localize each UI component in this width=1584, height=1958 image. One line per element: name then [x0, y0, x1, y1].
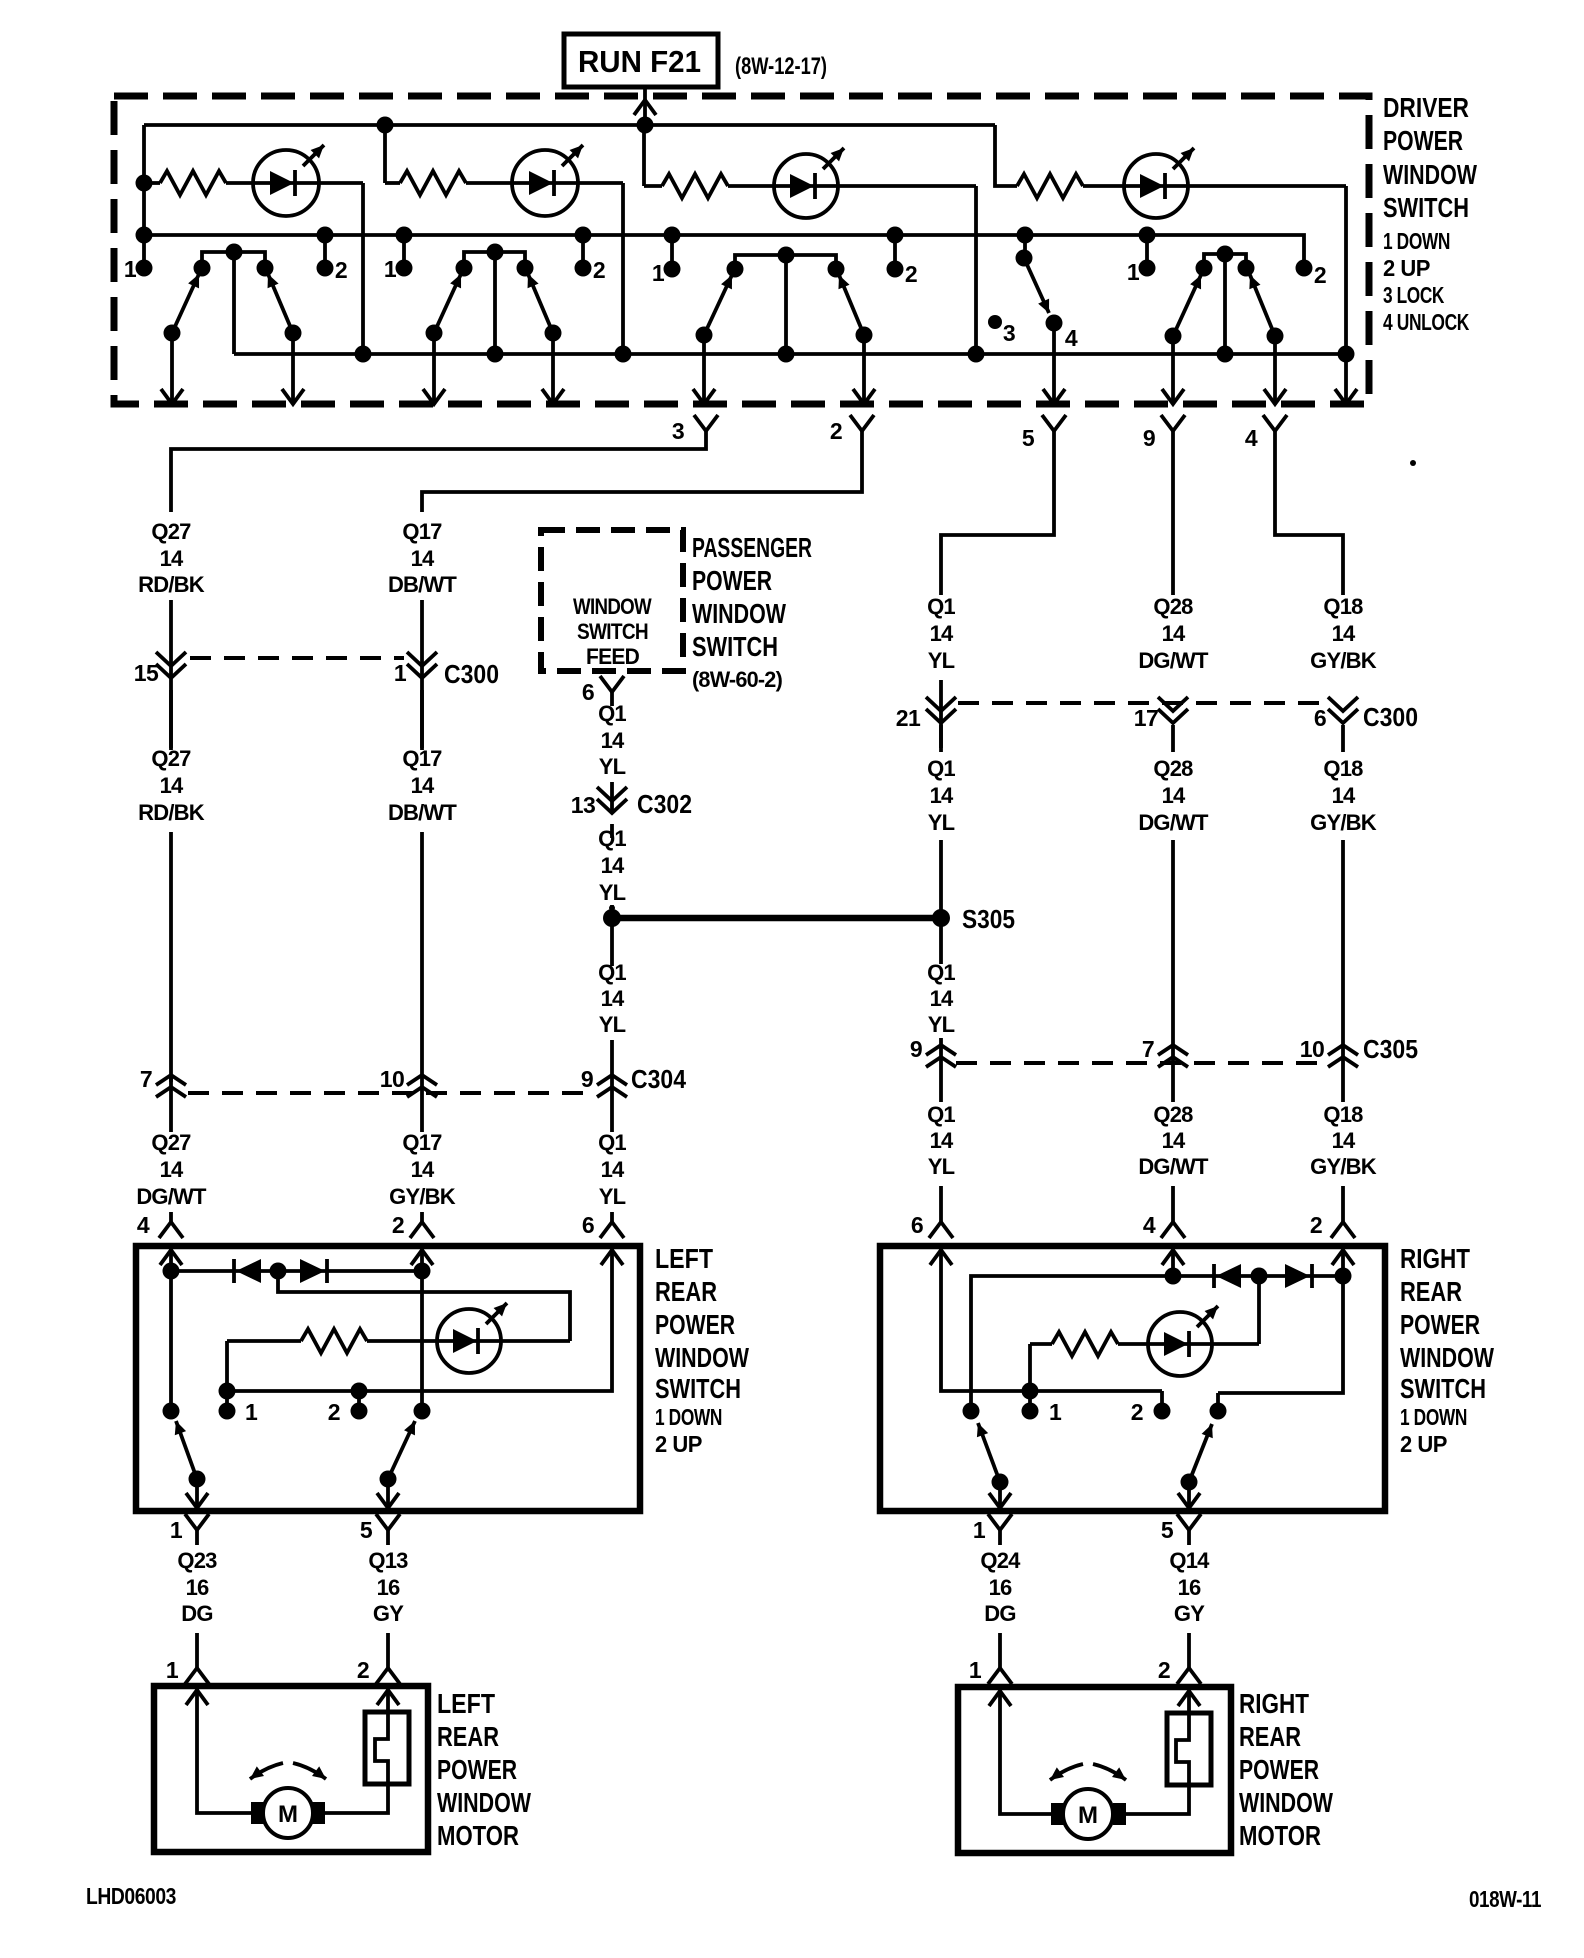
svg-text:1: 1: [969, 1657, 982, 1683]
svg-text:PASSENGER: PASSENGER: [692, 532, 812, 563]
pin number 1 (right rear): [1049, 1399, 1062, 1425]
svg-text:3: 3: [672, 418, 684, 444]
pin2 stub unit3: [893, 235, 897, 269]
svg-text:Q27: Q27: [151, 519, 191, 544]
svg-text:14: 14: [1162, 621, 1186, 646]
svg-text:POWER: POWER: [1239, 1754, 1319, 1785]
switch S2 common post: [493, 252, 497, 354]
switch S1 common dot: [226, 244, 243, 261]
circuit breaker CB (right rear motor): [1126, 1687, 1211, 1814]
svg-text:DG: DG: [984, 1601, 1015, 1626]
svg-text:YL: YL: [599, 1184, 626, 1209]
junction unit3 LED drop / lower bus: [968, 346, 985, 363]
label S305: [962, 904, 1015, 934]
wire arm outputs to bottom border (right rear): [1000, 1482, 1189, 1508]
svg-text:9: 9: [910, 1036, 922, 1062]
switch S1 bridge (driver unit1): [202, 252, 265, 268]
svg-text:2: 2: [593, 257, 605, 283]
unlock common post: [1223, 254, 1227, 354]
svg-text:(8W-12-17): (8W-12-17): [735, 53, 827, 80]
svg-text:14: 14: [411, 773, 435, 798]
label wire Q24 16 DG: [980, 1548, 1021, 1573]
pin1 stub unit2: [402, 235, 406, 268]
resistor R6 (right rear illumination): [1030, 1342, 1052, 1346]
pin number 2 (unit4): [1314, 262, 1326, 288]
svg-text:C300: C300: [1363, 702, 1418, 732]
entry arrows right rear switch: [930, 1250, 952, 1265]
svg-text:(8W-60-2): (8W-60-2): [692, 667, 782, 692]
junction between diodes: [270, 1263, 287, 1280]
label LEFT REAR POWER WINDOW MOTOR: [437, 1688, 495, 1719]
unlock common dot: [1217, 246, 1234, 263]
svg-text:1: 1: [1127, 259, 1140, 285]
svg-text:2: 2: [335, 257, 347, 283]
LED DS3 (driver sw unit3): [774, 148, 844, 218]
wire Q1 to C302: [610, 782, 614, 812]
label C300 (left): [444, 659, 499, 689]
svg-text:GY/BK: GY/BK: [1310, 810, 1377, 835]
lock switch contact stub: [1023, 235, 1027, 258]
connector pin 4 at right rear switch: [1161, 1222, 1185, 1238]
svg-text:14: 14: [601, 986, 625, 1011]
label C300 (right): [1363, 702, 1418, 732]
footer sheet number 018W-11: [1469, 1886, 1542, 1912]
wire Q1 feed below passenger box: [610, 692, 614, 706]
connector pin 1 below left rear switch: [185, 1514, 209, 1530]
diode row right rear: [1173, 1274, 1343, 1278]
connector pin 2 at left rear motor: [376, 1668, 400, 1684]
svg-text:Q23: Q23: [177, 1548, 217, 1573]
svg-text:14: 14: [601, 1157, 625, 1182]
svg-text:4 UNLOCK: 4 UNLOCK: [1383, 309, 1470, 335]
connector pin 5 below left rear switch: [376, 1514, 400, 1530]
svg-text:1: 1: [124, 256, 137, 282]
wire resistor to LED unit4: [1083, 184, 1346, 188]
pin number 2 (left rear): [328, 1399, 340, 1425]
svg-text:5: 5: [360, 1517, 373, 1543]
svg-text:Q28: Q28: [1153, 594, 1193, 619]
svg-text:6: 6: [582, 1212, 594, 1238]
svg-text:Q17: Q17: [402, 1130, 442, 1155]
pin2 stub unit1: [323, 235, 327, 268]
right rear power window switch enclosure: [880, 1246, 1385, 1511]
pin2 stub unit2: [581, 235, 585, 268]
wire unit1 LED drop: [361, 183, 365, 354]
svg-text:1: 1: [384, 256, 397, 282]
wire Q1 into left rear switch: [610, 1212, 614, 1222]
svg-text:14: 14: [160, 1157, 184, 1182]
svg-text:GY/BK: GY/BK: [1310, 648, 1377, 673]
svg-text:2: 2: [905, 261, 917, 287]
svg-text:SWITCH: SWITCH: [692, 631, 778, 662]
svg-text:Q28: Q28: [1153, 1102, 1193, 1127]
switch arm up (left rear): [388, 1421, 415, 1479]
wire resistor to LED unit2: [466, 181, 623, 185]
wire Q17 from C300 to C304: [420, 690, 424, 1132]
wire pin2 column right rear: [1218, 1246, 1343, 1393]
wire unit2 arm outputs to border: [434, 333, 553, 404]
lock position contact 3 (unconnected): [988, 315, 1002, 329]
label wire Q23 16 DG: [177, 1548, 217, 1573]
svg-text:14: 14: [160, 773, 184, 798]
wire resistor to LED (left rear): [367, 1339, 570, 1343]
passenger power window switch feed box (dashed): [541, 530, 683, 671]
LED DS2 (driver sw unit2): [512, 145, 583, 216]
svg-text:4: 4: [137, 1212, 150, 1238]
svg-text:Q28: Q28: [1153, 756, 1193, 781]
svg-text:WINDOW: WINDOW: [692, 598, 786, 629]
svg-text:4: 4: [1245, 425, 1258, 451]
junction rail/pin2 stub: [351, 1383, 368, 1400]
svg-text:14: 14: [930, 783, 954, 808]
svg-text:DG: DG: [181, 1601, 212, 1626]
wire unit3 arm outputs to border: [704, 335, 864, 404]
svg-text:RUN F21: RUN F21: [578, 44, 701, 79]
svg-text:YL: YL: [599, 880, 626, 905]
riser contact1 to diode row (right rear): [971, 1276, 1173, 1411]
switch S1 arm down-side: [172, 274, 199, 333]
connector C300 pin 21: [926, 697, 956, 723]
svg-text:3 LOCK: 3 LOCK: [1383, 282, 1445, 308]
junction pin4/diode row: [1165, 1268, 1182, 1285]
pin number 2 (right rear): [1131, 1399, 1143, 1425]
svg-text:YL: YL: [928, 648, 955, 673]
svg-text:LEFT: LEFT: [655, 1243, 713, 1274]
motor M2 (right rear): [1051, 1789, 1126, 1839]
pin1 stub unit3: [670, 235, 674, 269]
svg-text:4: 4: [1143, 1212, 1156, 1238]
connector C305 dashed line: [956, 1061, 1326, 1065]
svg-text:REAR: REAR: [1400, 1276, 1462, 1307]
unlock pivot dots: [1165, 328, 1182, 345]
LED DS6 (right rear): [1148, 1306, 1218, 1376]
svg-text:1: 1: [170, 1517, 183, 1543]
svg-text:Q27: Q27: [151, 1130, 191, 1155]
pivot dots unit1: [164, 325, 181, 342]
svg-text:2 UP: 2 UP: [655, 1431, 702, 1457]
svg-text:14: 14: [411, 546, 435, 571]
label (8W-12-17): [735, 53, 827, 80]
svg-text:14: 14: [411, 1157, 435, 1182]
svg-text:LEFT: LEFT: [437, 1688, 495, 1719]
wire resistor left end down: [225, 1341, 229, 1391]
pin number 3 (lock): [1003, 320, 1015, 346]
svg-text:1 DOWN: 1 DOWN: [1400, 1404, 1467, 1430]
right rear power window motor enclosure: [958, 1687, 1231, 1853]
svg-text:POWER: POWER: [692, 565, 772, 596]
label C302: [637, 789, 692, 819]
pin1 stub unit1: [136, 227, 153, 244]
diode D3 (right rear): [1214, 1264, 1241, 1288]
circuit breaker CB (left rear motor): [325, 1686, 409, 1813]
svg-text:REAR: REAR: [437, 1721, 499, 1752]
label wire Q27 14 RD/BK (upper): [151, 519, 191, 544]
riser contact2 (right rear): [1216, 1393, 1220, 1411]
resistor R1 (driver sw unit1 illumination): [144, 181, 160, 185]
contact 2 unit1: [257, 260, 274, 277]
pin number 1 (unit3): [652, 260, 665, 286]
connector C300 right half dashed line: [958, 701, 1326, 705]
connector pin 2 at left rear switch: [410, 1222, 434, 1238]
contact 1 unit1: [194, 260, 211, 277]
junction unlock post / lower bus: [1217, 346, 1234, 363]
wire Q28 into right rear switch: [1171, 1186, 1175, 1222]
connector C300 pin 6: [1328, 697, 1358, 723]
svg-text:16: 16: [989, 1575, 1012, 1600]
svg-text:DG/WT: DG/WT: [136, 1184, 207, 1209]
svg-text:Q17: Q17: [402, 519, 442, 544]
wire circuit Q17 from pin2: [422, 431, 862, 512]
unlock switch bridge: [1204, 254, 1246, 268]
switch S3 common post: [784, 255, 788, 354]
pin number 2 (unit1): [335, 257, 347, 283]
label wire Q1 14 YL (below C305): [927, 1102, 955, 1127]
connector C304 pin 9: [597, 1075, 627, 1097]
svg-text:POWER: POWER: [1383, 125, 1463, 156]
LED DS4 (driver sw unit4): [1124, 148, 1194, 218]
wire Q14 from pin5: [1187, 1530, 1191, 1545]
switch S2 arms: [434, 274, 553, 333]
svg-text:GY: GY: [373, 1601, 404, 1626]
svg-text:WINDOW: WINDOW: [437, 1787, 531, 1818]
svg-text:018W-11: 018W-11: [1469, 1886, 1542, 1912]
label wire Q1 14 YL (below C304): [598, 1130, 626, 1155]
wire pin1 to motor brush (left): [197, 1686, 251, 1813]
junction pin4/diodes: [163, 1263, 180, 1280]
svg-text:POWER: POWER: [437, 1754, 517, 1785]
svg-text:16: 16: [377, 1575, 400, 1600]
svg-text:14: 14: [930, 621, 954, 646]
label wire Q1 14 YL (below pin5): [927, 594, 955, 619]
pin number 2 (unit3): [905, 261, 917, 287]
diode row left rear switch: [171, 1269, 422, 1273]
svg-text:SWITCH: SWITCH: [1383, 192, 1469, 223]
svg-text:Q1: Q1: [927, 756, 955, 781]
pin number 1 (unit1): [124, 256, 137, 282]
pin number 1 (unit2): [384, 256, 397, 282]
wire diode tap to LED loop: [278, 1271, 570, 1341]
wire pin2 column in left rear switch: [420, 1246, 424, 1411]
switch arm down (left rear): [176, 1421, 197, 1479]
svg-text:14: 14: [1162, 783, 1186, 808]
wire circuit Q1 from pin5: [941, 431, 1054, 595]
svg-text:14: 14: [1332, 783, 1356, 808]
junction pin2/diode row: [1335, 1268, 1352, 1285]
label WINDOW SWITCH FEED: [573, 594, 652, 669]
wire Q1 splice to C305: [939, 918, 943, 1102]
wire Q18 into right rear switch: [1341, 1186, 1345, 1222]
wire Q1 splice to C304 (left): [610, 918, 614, 1132]
wire Q23 to motor: [195, 1633, 199, 1668]
wire dot above splice: [609, 905, 615, 911]
svg-text:Q1: Q1: [598, 1130, 626, 1155]
connector pin 5 at driver switch: [1042, 415, 1066, 431]
junction unit1 LED drop / lower bus: [355, 346, 372, 363]
svg-text:REAR: REAR: [655, 1276, 717, 1307]
connector C300 pin 17: [1158, 697, 1188, 723]
pin number 1 (left rear): [245, 1399, 258, 1425]
rotation arrows (right rear motor): [1050, 1764, 1126, 1780]
svg-text:1: 1: [394, 660, 407, 686]
svg-text:14: 14: [930, 986, 954, 1011]
svg-text:RIGHT: RIGHT: [1400, 1243, 1470, 1274]
svg-text:GY/BK: GY/BK: [389, 1184, 456, 1209]
label wire Q27 14 RD/BK (lower): [151, 746, 191, 771]
svg-text:RD/BK: RD/BK: [138, 572, 205, 597]
feed bus (top) inside driver switch: [144, 123, 995, 127]
svg-text:1: 1: [652, 260, 665, 286]
svg-text:2: 2: [830, 418, 842, 444]
connector pin 2 at right rear motor: [1177, 1668, 1201, 1684]
pin 2 bus drop unit4: [1296, 260, 1313, 277]
svg-text:MOTOR: MOTOR: [1239, 1820, 1321, 1851]
label wire Q27 14 DG/WT (below C304): [151, 1130, 191, 1155]
entry arrows left rear motor: [186, 1690, 208, 1705]
junction between diodes (right): [1251, 1268, 1268, 1285]
svg-text:2: 2: [357, 1657, 369, 1683]
svg-text:C300: C300: [444, 659, 499, 689]
connector pin 6 at passenger feed: [600, 676, 624, 692]
svg-text:DB/WT: DB/WT: [388, 800, 457, 825]
svg-text:WINDOW: WINDOW: [1383, 159, 1477, 190]
wire circuit Q28 from pin9: [1171, 431, 1175, 595]
svg-text:Q1: Q1: [927, 1102, 955, 1127]
wire resistor to LED unit3: [728, 184, 976, 188]
label C304: [631, 1064, 686, 1094]
svg-text:1 DOWN: 1 DOWN: [1383, 228, 1450, 254]
wire resistor to LED unit1: [226, 181, 363, 185]
pin number 4 (lock arm): [1065, 325, 1078, 351]
junction unit4 LED drop / lower bus: [1338, 346, 1355, 363]
svg-text:REAR: REAR: [1239, 1721, 1301, 1752]
svg-text:WINDOW: WINDOW: [1400, 1342, 1494, 1373]
svg-text:3: 3: [1003, 320, 1015, 346]
wire Q27 to C300: [169, 600, 173, 748]
svg-text:Q13: Q13: [368, 1548, 408, 1573]
svg-text:YL: YL: [928, 1012, 955, 1037]
svg-text:POWER: POWER: [1400, 1309, 1480, 1340]
svg-text:2: 2: [328, 1399, 340, 1425]
motor M1 (left rear): [251, 1788, 325, 1838]
wire Q23 from pin1: [195, 1530, 199, 1545]
unlock contacts: [1196, 260, 1213, 277]
contact dots right rear: [963, 1403, 980, 1420]
svg-text:14: 14: [1332, 1128, 1356, 1153]
wire circuit Q27 from pin3: [171, 431, 706, 512]
wire pin1 to motor brush (right): [1000, 1687, 1051, 1814]
svg-text:GY: GY: [1174, 1601, 1205, 1626]
wire Q24 from pin1: [998, 1530, 1002, 1545]
wire resistor left end down (right rear): [1028, 1344, 1032, 1391]
label wire Q17 14 DB/WT (lower): [402, 746, 442, 771]
stub contact 2 (left rear): [357, 1391, 361, 1411]
svg-text:WINDOW: WINDOW: [655, 1342, 749, 1373]
wire pin6 column right rear: [941, 1246, 1162, 1391]
resistor R2 (driver sw unit2): [400, 171, 466, 195]
label wire Q1 14 YL (passenger upper): [598, 701, 626, 726]
wire unit3 feed vertical: [642, 125, 646, 186]
junction S2 post / lower bus: [487, 346, 504, 363]
label wire Q18 14 GY/BK (below C305): [1323, 1102, 1363, 1127]
svg-text:5: 5: [1161, 1517, 1174, 1543]
wire Q17 into left rear switch: [420, 1212, 424, 1222]
label RIGHT REAR POWER WINDOW MOTOR: [1239, 1688, 1309, 1719]
connector C300 pin 1: [407, 652, 437, 678]
pivot dots unit2: [426, 325, 443, 342]
svg-text:17: 17: [1134, 705, 1159, 731]
wire Q1 21 to C300: [939, 680, 943, 748]
svg-text:FEED: FEED: [586, 644, 639, 669]
unlock arms: [1173, 275, 1275, 336]
wire Q28 C300 to C305: [1171, 725, 1175, 1102]
wire resistor to LED (right rear): [1118, 1342, 1259, 1346]
svg-text:RIGHT: RIGHT: [1239, 1688, 1309, 1719]
svg-text:21: 21: [896, 705, 921, 731]
svg-text:GY/BK: GY/BK: [1310, 1154, 1377, 1179]
connector C304 pin 7: [156, 1075, 186, 1097]
label wire Q1 14 YL (below C300 right): [927, 756, 955, 781]
wire Q27 from C300 to C304: [169, 690, 173, 1132]
connector C300 pin 15: [156, 652, 186, 678]
fuse box RUN F21: [564, 34, 718, 87]
svg-text:4: 4: [1065, 325, 1078, 351]
wire diode tap down to LED (right rear): [1257, 1276, 1261, 1344]
svg-text:5: 5: [1022, 425, 1035, 451]
switch S3 common dot: [778, 247, 795, 264]
connector pin 1 at right rear motor: [988, 1668, 1012, 1684]
connector pin 6 at right rear switch: [929, 1222, 953, 1238]
wire Q27 into left rear switch: [169, 1078, 173, 1222]
svg-text:Q24: Q24: [980, 1548, 1021, 1573]
wire Q13 to motor: [386, 1633, 390, 1668]
junction top bus / unit2 feed: [377, 117, 394, 134]
wire circuit Q18 from pin4: [1275, 431, 1343, 595]
connector C302 pin 13: [597, 787, 627, 813]
wire unit1 arm outputs to border: [172, 333, 293, 404]
svg-text:SWITCH: SWITCH: [577, 619, 648, 644]
label wire Q28 14 DG/WT (below C300): [1153, 756, 1193, 781]
switch S2 common dot: [487, 244, 504, 261]
diode D2 (left rear): [300, 1259, 327, 1283]
entry arrows left rear switch: [160, 1250, 182, 1265]
label wire Q18 14 GY/BK (below C300): [1323, 756, 1363, 781]
svg-text:2 UP: 2 UP: [1383, 255, 1430, 281]
svg-text:2 UP: 2 UP: [1400, 1431, 1447, 1457]
pin number 2 (unit2): [593, 257, 605, 283]
junction S3 post / lower bus: [778, 346, 795, 363]
svg-text:14: 14: [601, 853, 625, 878]
contact dots left rear: [163, 1403, 180, 1420]
connector pin 6 at left rear switch: [600, 1222, 624, 1238]
wire Q1 into right rear switch: [939, 1186, 943, 1222]
svg-text:Q14: Q14: [1169, 1548, 1210, 1573]
svg-text:C305: C305: [1363, 1034, 1418, 1064]
label wire Q17 14 DB/WT (upper): [402, 519, 442, 544]
svg-text:14: 14: [930, 1128, 954, 1153]
wire unit2 feed vertical: [383, 125, 387, 183]
svg-text:DG/WT: DG/WT: [1138, 648, 1209, 673]
svg-text:14: 14: [160, 546, 184, 571]
svg-text:2: 2: [1314, 262, 1326, 288]
svg-text:MOTOR: MOTOR: [437, 1820, 519, 1851]
pin1 stub unit4: [1145, 235, 1149, 268]
svg-text:10: 10: [1300, 1036, 1325, 1062]
wire unit2 LED drop: [621, 183, 625, 354]
junction fuse feed / top bus: [637, 117, 654, 134]
left rear power window motor enclosure: [154, 1686, 428, 1852]
svg-text:9: 9: [581, 1066, 593, 1092]
svg-text:Q18: Q18: [1323, 594, 1363, 619]
